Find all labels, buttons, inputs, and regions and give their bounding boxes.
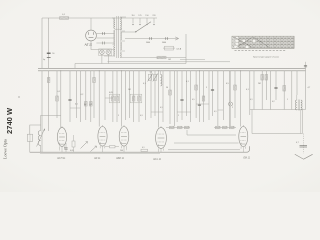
wire drop x60.8	[60, 71, 62, 128]
transformer T1 sec tap5	[120, 57, 150, 59]
resistor at x85.8	[85, 102, 88, 107]
potentiometer arrow 2	[91, 146, 97, 152]
svg-text:2740 W: 2740 W	[5, 107, 14, 134]
fuse Si 0,3A	[165, 46, 174, 50]
resistor near V1	[72, 141, 75, 147]
wire fb1	[187, 134, 236, 136]
wire drop x196.1	[195, 71, 197, 118]
capacitor at x199.4	[198, 103, 201, 105]
wire drop x254	[253, 71, 255, 110]
resistor at x262.2	[261, 75, 264, 81]
wire V3 pins	[123, 148, 125, 152]
transformer T1 primary mid	[114, 30, 115, 44]
svg-text:1M: 1M	[128, 89, 131, 91]
IF can 1	[109, 94, 119, 103]
transformer T1 core	[116, 16, 118, 58]
bus chassis 2	[40, 152, 160, 154]
bus B+ upper	[38, 67, 306, 69]
wire drop x262.2	[261, 71, 263, 110]
svg-text:5000: 5000	[162, 42, 166, 44]
wire link y112d	[177, 111, 191, 113]
potentiometer arrow 1	[81, 142, 88, 149]
wire drop x99.2	[98, 71, 100, 127]
svg-text:5000: 5000	[146, 42, 150, 44]
svg-text:5: 5	[118, 115, 119, 117]
wire lamp1 drop	[101, 55, 103, 64]
transformer T1 secondary 2	[120, 32, 121, 40]
svg-text:0,1: 0,1	[214, 111, 217, 113]
wire drop x291.8	[291, 71, 293, 110]
capacitor C5 5000pF	[149, 37, 151, 40]
wire drop x266.3	[265, 71, 267, 100]
svg-text:0,1: 0,1	[75, 104, 78, 106]
svg-text:EM 11: EM 11	[244, 157, 251, 159]
wire lamp2 drop	[107, 55, 109, 64]
speaker chevron	[295, 154, 313, 159]
transformer T1 primary lower	[114, 46, 115, 57]
output transformer	[296, 100, 297, 110]
wire drop x235	[234, 71, 236, 118]
IF can 2	[130, 94, 142, 103]
wire drop x199.4	[198, 71, 200, 122]
wire link y110a	[70, 107, 80, 109]
wire drop x90.8	[90, 71, 92, 122]
svg-text:125: 125	[138, 15, 141, 17]
wire drop x105	[104, 71, 106, 120]
transformer T1 secondary 4	[119, 52, 122, 58]
svg-text:0,1: 0,1	[58, 91, 61, 93]
lamp La2	[106, 50, 111, 55]
svg-text:1: 1	[287, 99, 288, 101]
svg-text:5: 5	[206, 87, 207, 89]
wire drop x145.5	[145, 71, 147, 120]
capacitor C2 50uF	[47, 57, 51, 59]
wire drop x158.7	[158, 71, 160, 128]
table column lines	[238, 36, 240, 48]
mark x	[18, 96, 20, 98]
svg-text:200: 200	[120, 150, 123, 152]
svg-text:50: 50	[166, 87, 168, 89]
transformer T1 secondary 3	[120, 42, 121, 50]
wire drop x212.5	[212, 71, 214, 116]
wire drop x217.9	[217, 71, 219, 126]
wire speaker dashed	[302, 134, 304, 154]
svg-text:50: 50	[84, 104, 86, 106]
wire link y104e	[196, 103, 209, 105]
title 2740 W	[5, 107, 14, 134]
wire V1 pins	[61, 149, 63, 153]
svg-text:110: 110	[131, 15, 134, 17]
wire AZ11 cathode	[90, 18, 92, 30]
svg-text:0,5: 0,5	[192, 99, 195, 101]
wire mains top	[42, 17, 157, 19]
lamp La1	[100, 50, 105, 55]
wire AZ11 anode1	[96, 33, 113, 35]
wire out right	[302, 110, 304, 134]
transformer T1 secondary HT	[120, 17, 121, 30]
svg-text:0,1: 0,1	[160, 107, 163, 109]
svg-text:4μ: 4μ	[43, 59, 45, 61]
wire drop x48.6	[48, 71, 50, 131]
svg-text:0,1: 0,1	[143, 83, 146, 85]
capacitor C3	[102, 32, 104, 35]
svg-text:Spannungen gegen Chassis: Spannungen gegen Chassis	[253, 57, 279, 59]
svg-text:0,3 A: 0,3 A	[177, 47, 182, 50]
resistor R1 0,1	[60, 17, 69, 20]
capacitor C sp	[300, 145, 308, 147]
resistor at x284.2	[283, 86, 286, 92]
resistor at x48.6	[47, 78, 50, 83]
coil L1	[38, 131, 41, 146]
wire drop x155	[154, 71, 156, 116]
capacitor right edge	[304, 65, 307, 67]
bus B+ lower	[38, 70, 306, 72]
resistor at x170	[169, 90, 172, 95]
lamp junction	[229, 102, 233, 106]
svg-text:0,1: 0,1	[142, 147, 145, 149]
paper background	[0, 0, 320, 192]
wire drop x182	[181, 71, 183, 120]
capacitor at x212.5	[211, 88, 214, 90]
wire v75	[74, 64, 76, 69]
svg-text:0,1: 0,1	[150, 72, 153, 74]
tube V5 ECL11	[239, 127, 248, 147]
wire drop x117	[116, 71, 118, 122]
wire y63 rail	[75, 63, 186, 65]
wire drop x42	[41, 71, 43, 152]
svg-text:2M: 2M	[258, 83, 261, 85]
wire out left	[251, 110, 253, 134]
scan shading	[0, 0, 320, 192]
svg-text:0,2: 0,2	[272, 101, 275, 103]
resistor at x266.3	[265, 75, 268, 81]
selector arm	[121, 31, 136, 33]
svg-text:Ug: Ug	[233, 44, 236, 46]
capacitor at x182	[180, 98, 183, 100]
wire stub y59	[180, 58, 205, 60]
svg-text:50: 50	[52, 53, 54, 55]
resistor at x94	[93, 78, 96, 83]
wire V5 pins	[242, 149, 244, 153]
resistor at x112.9	[112, 96, 115, 101]
wire right edge	[305, 62, 307, 69]
resistor at x139	[138, 96, 141, 101]
tube V2 EF11	[98, 127, 107, 147]
wire drop x57	[56, 71, 58, 118]
wire drop x229.5	[229, 71, 231, 126]
wire drop x112.9	[112, 71, 114, 122]
wire drop x151	[150, 71, 152, 118]
wire fb left	[186, 130, 188, 135]
transformer T1 primary upper	[114, 18, 115, 29]
bus chassis	[30, 146, 250, 152]
svg-text:0,05: 0,05	[109, 92, 113, 94]
tube V4 ECL11	[156, 128, 167, 149]
transformer T1 tap p4	[104, 55, 115, 57]
resistor at x133.6	[132, 96, 135, 101]
wire drop x125.5	[125, 71, 127, 120]
antenna socket	[27, 134, 32, 141]
wire drop x297	[296, 71, 298, 95]
resistor at x90.8	[90, 102, 93, 107]
transformer T1 tap p3	[113, 44, 115, 46]
svg-text:EBF 11: EBF 11	[117, 158, 125, 160]
svg-text:150: 150	[145, 15, 148, 17]
resistor R heater	[157, 56, 166, 59]
wire drop x121.5	[121, 71, 123, 127]
table row lines	[232, 38, 294, 40]
wire V4 pins	[160, 151, 162, 153]
table frame	[232, 36, 294, 48]
wire out rail	[250, 109, 306, 111]
wire heater down	[91, 41, 100, 50]
svg-text:EF 11: EF 11	[95, 158, 102, 160]
resistor at x196.1	[195, 85, 198, 90]
svg-text:2: 2	[232, 107, 233, 109]
transformer T1 sec tap1	[120, 16, 126, 18]
wire drop x80.4	[79, 71, 81, 122]
transformer T1 sec tap4	[120, 50, 125, 52]
IF transformer 1	[148, 74, 151, 80]
svg-text:0,5: 0,5	[226, 83, 229, 85]
wire AZ11 anode2	[96, 37, 113, 39]
wire lamps join	[100, 49, 114, 51]
wire drop x186.5	[186, 71, 188, 116]
wire fb3	[168, 149, 240, 151]
transformer T1 sec tap2	[120, 30, 125, 32]
wire drop x284.2	[283, 71, 285, 110]
wire grid link	[41, 114, 61, 116]
wire out bottom	[252, 133, 303, 135]
svg-text:1: 1	[178, 115, 179, 117]
coil L1 core arrow	[37, 129, 45, 147]
antenna wire up	[30, 125, 41, 134]
tube V3 EBF11	[119, 127, 129, 147]
wire drop x139	[138, 71, 140, 122]
wire heater rail	[150, 57, 186, 59]
wire drop x163	[162, 71, 164, 122]
svg-text:0,1: 0,1	[186, 81, 189, 83]
antenna wire down	[29, 141, 31, 152]
resistor on bus	[141, 149, 148, 151]
capacitor C4	[102, 42, 104, 45]
wire V2 pins	[102, 148, 104, 152]
capacitor at x70	[68, 98, 71, 100]
arrow mains plug	[175, 37, 178, 40]
capacitor row bottom	[64, 147, 67, 149]
table footer row	[235, 49, 237, 51]
resistor row bottom2	[110, 146, 116, 148]
svg-text:0,2: 0,2	[81, 94, 84, 96]
capacitor C1 50uF	[47, 52, 51, 54]
wire drop x203.5	[203, 71, 205, 122]
bus top thin	[108, 61, 231, 63]
resistor at x235	[234, 85, 237, 90]
tube V1 ECH11	[57, 128, 66, 147]
title Loewe Opta	[3, 139, 8, 159]
wire mains out	[125, 38, 178, 40]
svg-text:162: 162	[168, 59, 171, 61]
svg-text:4,7: 4,7	[308, 87, 311, 89]
wire drop x129.5	[129, 71, 131, 118]
svg-text:Loewe Opta: Loewe Opta	[3, 139, 8, 159]
tube AZ11 envelope	[86, 30, 97, 41]
wire drop x94	[93, 71, 95, 118]
wire drop x240.4	[239, 71, 241, 127]
wire drop x174.4	[173, 71, 175, 126]
junction dots	[60, 70, 61, 71]
svg-text:0,1: 0,1	[246, 89, 249, 91]
wire drop x270.4	[269, 71, 271, 110]
selector contacts	[132, 18, 134, 24]
lamp box	[99, 49, 112, 56]
svg-text:4,7: 4,7	[296, 142, 299, 144]
coupling row 1	[166, 127, 190, 129]
svg-text:0,05: 0,05	[70, 150, 74, 152]
wire drop x70	[69, 71, 71, 122]
wire drop x209	[208, 71, 210, 120]
coupling row 2	[214, 127, 236, 129]
transformer T1 tap p2	[115, 28, 121, 30]
wire left drop B	[48, 18, 50, 68]
wire drop x249.8	[249, 71, 251, 115]
wire link y112c	[151, 111, 163, 113]
svg-text:ECH 11: ECH 11	[58, 158, 67, 160]
svg-text:ECL 11: ECL 11	[154, 159, 162, 161]
capacitor C6 5000pF	[165, 37, 167, 40]
tube AZ11 anodes	[89, 32, 94, 37]
wire drop x85.8	[85, 71, 87, 120]
resistor at x117	[116, 96, 119, 101]
svg-text:Ik: Ik	[233, 47, 235, 49]
svg-text:220: 220	[152, 15, 155, 17]
wire v186	[185, 34, 187, 64]
wire drop x190.7	[190, 71, 192, 122]
wire drop x170	[169, 71, 171, 124]
wire left drop A	[41, 18, 43, 68]
transformer T1 sec tap3	[120, 40, 125, 42]
coil osc	[161, 75, 162, 87]
wire drop x276	[275, 71, 277, 100]
wire link y110b	[105, 97, 113, 99]
bus right drop	[305, 68, 307, 109]
wire link y110f	[218, 109, 223, 111]
resistor at x203.5	[202, 96, 205, 101]
capacitor at x276	[274, 86, 277, 88]
wire fb2	[174, 142, 239, 144]
svg-text:0,1: 0,1	[250, 99, 253, 101]
wire drop x177.1	[176, 71, 178, 122]
wire drop x223.3	[222, 71, 224, 120]
table cell marks	[239, 37, 241, 39]
svg-text:0,1: 0,1	[90, 104, 93, 106]
svg-text:0,3: 0,3	[140, 115, 143, 117]
transformer T1 tap p1	[112, 17, 115, 19]
wire drop x76.3	[75, 71, 77, 118]
resistor at x57	[56, 96, 59, 101]
svg-text:Rg: Rg	[233, 38, 236, 40]
wire drop x133.6	[133, 71, 135, 122]
